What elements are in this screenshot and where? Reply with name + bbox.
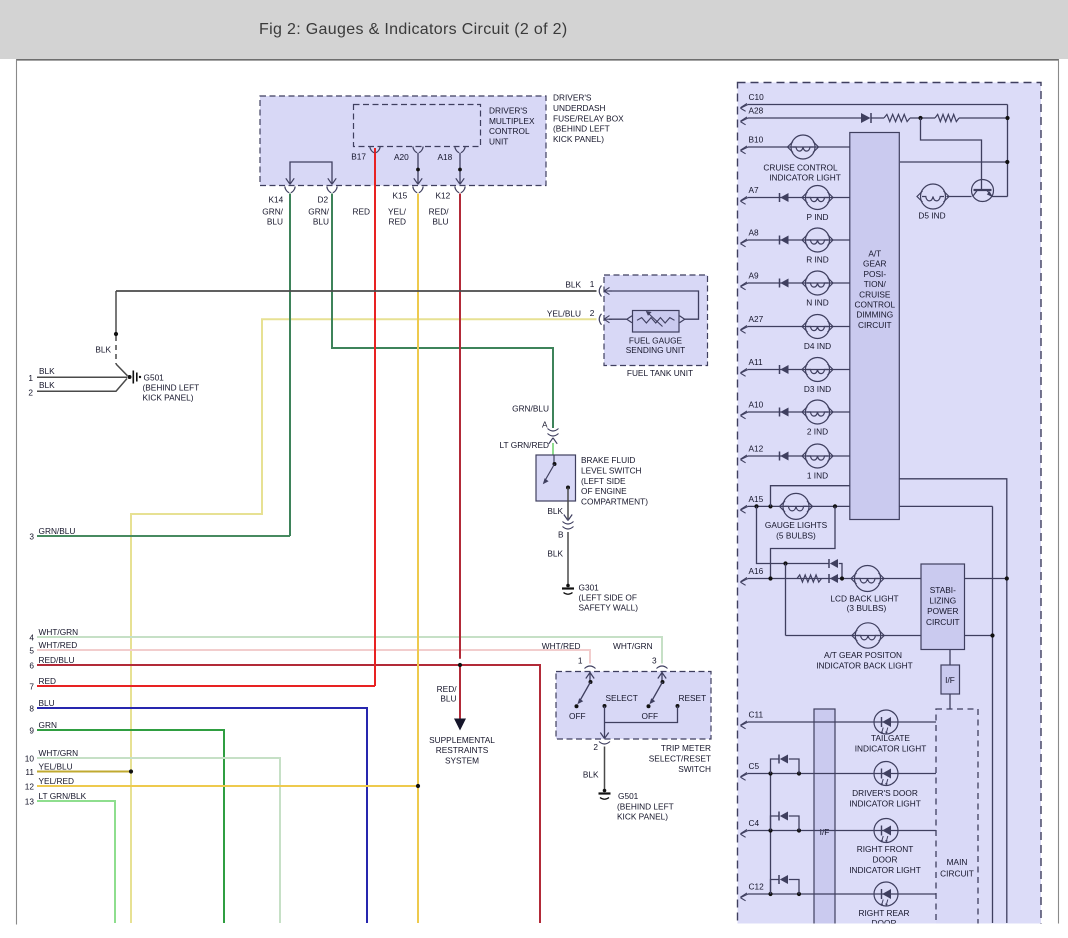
svg-text:A9: A9	[749, 270, 760, 280]
svg-text:3: 3	[652, 656, 657, 666]
svg-text:10: 10	[25, 753, 35, 763]
svg-text:KICK PANEL): KICK PANEL)	[143, 393, 194, 403]
svg-text:B17: B17	[351, 152, 366, 162]
svg-text:1 IND: 1 IND	[807, 470, 828, 480]
svg-text:POSI-: POSI-	[864, 269, 887, 279]
svg-text:RED: RED	[353, 206, 371, 216]
svg-text:RESET: RESET	[679, 693, 707, 703]
svg-text:A20: A20	[394, 152, 409, 162]
svg-text:RED: RED	[39, 676, 57, 686]
svg-text:SWITCH: SWITCH	[678, 764, 711, 774]
svg-text:LCD BACK LIGHT: LCD BACK LIGHT	[830, 594, 898, 604]
svg-text:6: 6	[29, 660, 34, 670]
svg-text:WHT/RED: WHT/RED	[542, 641, 581, 651]
svg-text:P IND: P IND	[807, 212, 829, 222]
svg-text:N IND: N IND	[806, 297, 829, 307]
svg-text:G501: G501	[144, 373, 165, 383]
svg-text:13: 13	[25, 796, 35, 806]
svg-text:C10: C10	[749, 92, 765, 102]
svg-text:A12: A12	[749, 443, 764, 453]
svg-text:INDICATOR LIGHT: INDICATOR LIGHT	[849, 799, 921, 809]
svg-text:(5 BULBS): (5 BULBS)	[776, 531, 816, 541]
svg-text:FUEL GAUGE: FUEL GAUGE	[629, 335, 683, 345]
svg-text:BRAKE FLUID: BRAKE FLUID	[581, 455, 635, 465]
svg-text:INDICATOR LIGHT: INDICATOR LIGHT	[849, 865, 921, 875]
svg-text:CONTROL: CONTROL	[855, 300, 896, 310]
svg-text:I/F: I/F	[820, 827, 830, 837]
svg-text:YEL/BLU: YEL/BLU	[39, 762, 73, 772]
svg-text:2: 2	[28, 387, 33, 397]
svg-text:GAUGE LIGHTS: GAUGE LIGHTS	[765, 520, 828, 530]
svg-text:(BEHIND LEFT: (BEHIND LEFT	[617, 802, 674, 812]
svg-text:BLK: BLK	[547, 506, 563, 516]
svg-text:B: B	[558, 530, 564, 540]
svg-text:A27: A27	[749, 314, 764, 324]
svg-text:C5: C5	[749, 761, 760, 771]
svg-text:UNDERDASH: UNDERDASH	[553, 103, 606, 113]
svg-text:SENDING UNIT: SENDING UNIT	[626, 345, 685, 355]
svg-text:RIGHT REAR: RIGHT REAR	[858, 908, 909, 918]
svg-text:INDICATOR BACK LIGHT: INDICATOR BACK LIGHT	[816, 660, 913, 670]
svg-text:UNIT: UNIT	[489, 136, 508, 146]
svg-text:1: 1	[28, 373, 33, 383]
svg-text:(3 BULBS): (3 BULBS)	[847, 603, 887, 613]
svg-text:K12: K12	[436, 191, 451, 201]
svg-text:CIRCUIT: CIRCUIT	[940, 869, 974, 879]
svg-text:K15: K15	[393, 191, 408, 201]
svg-text:9: 9	[29, 725, 34, 735]
svg-text:I/F: I/F	[945, 675, 955, 685]
svg-text:GRN: GRN	[39, 720, 57, 730]
svg-text:BLU: BLU	[432, 216, 448, 226]
svg-text:OFF: OFF	[642, 711, 659, 721]
svg-text:BLK: BLK	[583, 770, 599, 780]
svg-text:(LEFT SIDE: (LEFT SIDE	[581, 476, 626, 486]
svg-text:BLU: BLU	[39, 698, 55, 708]
svg-text:G301: G301	[579, 583, 600, 593]
svg-text:2: 2	[590, 308, 595, 318]
svg-text:(BEHIND LEFT: (BEHIND LEFT	[143, 383, 200, 393]
svg-text:BLK: BLK	[565, 279, 581, 289]
svg-text:D3 IND: D3 IND	[804, 384, 831, 394]
svg-text:A/T: A/T	[868, 249, 881, 259]
svg-text:11: 11	[25, 767, 34, 777]
svg-text:LIZING: LIZING	[929, 596, 956, 606]
svg-text:RESTRAINTS: RESTRAINTS	[436, 745, 489, 755]
svg-text:RED: RED	[388, 216, 406, 226]
svg-text:D4 IND: D4 IND	[804, 341, 831, 351]
svg-text:YEL/BLU: YEL/BLU	[547, 308, 581, 318]
svg-text:12: 12	[25, 781, 35, 791]
svg-text:KICK PANEL): KICK PANEL)	[553, 134, 604, 144]
svg-text:A11: A11	[749, 357, 764, 367]
svg-text:A/T GEAR POSITON: A/T GEAR POSITON	[824, 650, 902, 660]
svg-text:A16: A16	[749, 566, 764, 576]
svg-text:3: 3	[29, 531, 34, 541]
svg-text:COMPARTMENT): COMPARTMENT)	[581, 497, 648, 507]
svg-text:GEAR: GEAR	[863, 259, 887, 269]
svg-text:CRUISE CONTROL: CRUISE CONTROL	[763, 163, 838, 173]
svg-text:7: 7	[29, 681, 34, 691]
svg-text:A8: A8	[749, 227, 760, 237]
svg-text:LT GRN/BLK: LT GRN/BLK	[39, 791, 87, 801]
svg-text:C4: C4	[749, 818, 760, 828]
svg-text:OF ENGINE: OF ENGINE	[581, 486, 627, 496]
svg-text:TION/: TION/	[864, 279, 887, 289]
svg-text:RED/BLU: RED/BLU	[39, 655, 75, 665]
svg-text:1: 1	[590, 279, 595, 289]
svg-text:STABI-: STABI-	[930, 585, 956, 595]
svg-text:D5 IND: D5 IND	[918, 211, 945, 221]
svg-text:GRN/BLU: GRN/BLU	[39, 526, 76, 536]
svg-text:A10: A10	[749, 399, 764, 409]
svg-text:C11: C11	[749, 709, 764, 719]
svg-text:GRN/BLU: GRN/BLU	[512, 404, 549, 414]
svg-text:(LEFT SIDE OF: (LEFT SIDE OF	[579, 593, 637, 603]
svg-text:D2: D2	[318, 195, 329, 205]
svg-text:2: 2	[593, 742, 598, 752]
svg-text:MULTIPLEX: MULTIPLEX	[489, 116, 535, 126]
svg-text:KICK PANEL): KICK PANEL)	[617, 812, 668, 822]
svg-text:DIMMING: DIMMING	[856, 310, 893, 320]
svg-text:B10: B10	[749, 134, 764, 144]
svg-text:K14: K14	[269, 195, 284, 205]
svg-text:RIGHT FRONT: RIGHT FRONT	[857, 844, 914, 854]
svg-text:TRIP METER: TRIP METER	[661, 743, 711, 753]
svg-text:BLK: BLK	[95, 345, 111, 355]
svg-text:TAILGATE: TAILGATE	[871, 733, 910, 743]
svg-text:A7: A7	[749, 185, 760, 195]
svg-text:CRUISE: CRUISE	[859, 289, 891, 299]
svg-text:INDICATOR LIGHT: INDICATOR LIGHT	[769, 172, 841, 182]
svg-text:DOOR: DOOR	[872, 918, 897, 928]
svg-text:SAFETY WALL): SAFETY WALL)	[579, 603, 639, 613]
svg-text:MAIN: MAIN	[947, 857, 968, 867]
svg-text:WHT/GRN: WHT/GRN	[39, 748, 79, 758]
svg-text:8: 8	[29, 703, 34, 713]
svg-text:DOOR: DOOR	[873, 855, 898, 865]
svg-text:SELECT/RESET: SELECT/RESET	[649, 754, 711, 764]
svg-text:RED/: RED/	[429, 206, 450, 216]
svg-text:OFF: OFF	[569, 711, 586, 721]
svg-text:INDICATOR LIGHT: INDICATOR LIGHT	[855, 744, 927, 754]
svg-text:DRIVER'S: DRIVER'S	[489, 106, 528, 116]
svg-text:SUPPLEMENTAL: SUPPLEMENTAL	[429, 735, 495, 745]
svg-text:5: 5	[29, 645, 34, 655]
svg-text:(BEHIND LEFT: (BEHIND LEFT	[553, 124, 610, 134]
svg-text:CIRCUIT: CIRCUIT	[926, 617, 960, 627]
svg-text:BLK: BLK	[547, 549, 563, 559]
svg-text:YEL/: YEL/	[388, 206, 407, 216]
svg-text:1: 1	[578, 656, 583, 666]
svg-text:WHT/GRN: WHT/GRN	[613, 641, 653, 651]
svg-text:BLK: BLK	[39, 380, 55, 390]
svg-text:C12: C12	[749, 881, 765, 891]
svg-text:2 IND: 2 IND	[807, 426, 828, 436]
svg-text:POWER: POWER	[927, 606, 958, 616]
svg-text:A18: A18	[438, 152, 453, 162]
svg-text:YEL/RED: YEL/RED	[39, 776, 75, 786]
svg-text:BLK: BLK	[39, 366, 55, 376]
svg-text:WHT/GRN: WHT/GRN	[39, 627, 79, 637]
svg-text:LT GRN/RED: LT GRN/RED	[500, 440, 549, 450]
svg-text:A28: A28	[749, 105, 764, 115]
svg-text:DRIVER'S DOOR: DRIVER'S DOOR	[852, 788, 918, 798]
svg-text:RED/: RED/	[437, 684, 458, 694]
svg-text:FUSE/RELAY BOX: FUSE/RELAY BOX	[553, 113, 624, 123]
svg-text:BLU: BLU	[440, 694, 456, 704]
svg-text:WHT/RED: WHT/RED	[39, 640, 78, 650]
svg-text:4: 4	[29, 632, 34, 642]
svg-text:BLU: BLU	[313, 216, 329, 226]
svg-text:DRIVER'S: DRIVER'S	[553, 93, 592, 103]
svg-text:SELECT: SELECT	[606, 693, 638, 703]
svg-text:LEVEL SWITCH: LEVEL SWITCH	[581, 465, 642, 475]
svg-text:R IND: R IND	[806, 254, 829, 264]
svg-text:A15: A15	[749, 494, 764, 504]
svg-text:GRN/: GRN/	[262, 206, 283, 216]
svg-text:GRN/: GRN/	[308, 206, 329, 216]
svg-text:FUEL TANK UNIT: FUEL TANK UNIT	[627, 368, 693, 378]
svg-text:BLU: BLU	[267, 216, 283, 226]
svg-text:CIRCUIT: CIRCUIT	[858, 320, 892, 330]
svg-text:CONTROL: CONTROL	[489, 126, 530, 136]
svg-text:SYSTEM: SYSTEM	[445, 755, 479, 765]
svg-text:G501: G501	[618, 791, 639, 801]
svg-text:A: A	[542, 420, 548, 430]
